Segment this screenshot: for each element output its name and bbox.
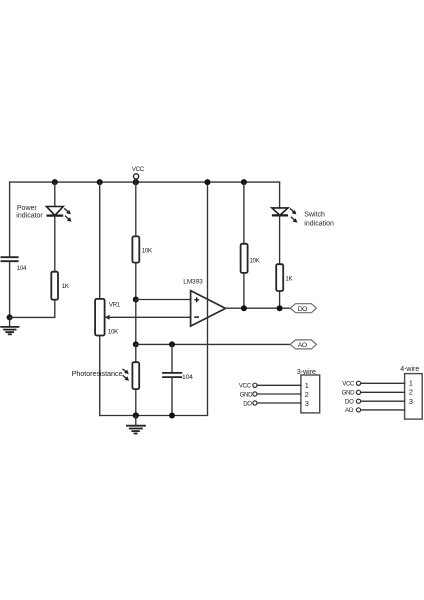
svg-text:1: 1 xyxy=(409,379,413,388)
wire LED D2 to R4 xyxy=(279,215,281,264)
pin 1 (J1) xyxy=(305,381,309,390)
wire rail to R2 xyxy=(135,182,137,236)
wire VR1 bottom to bottom rail xyxy=(99,336,101,416)
label 10K (R2) xyxy=(142,247,153,254)
svg-text:Power: Power xyxy=(17,205,38,212)
wire DO to J2 xyxy=(361,400,405,402)
wire top VCC rail xyxy=(10,181,280,183)
wire AO to J2 xyxy=(361,409,405,411)
label 3-wire xyxy=(297,369,316,376)
svg-text:1K: 1K xyxy=(285,275,293,282)
label 10K (R3) xyxy=(250,257,261,264)
svg-text:10K: 10K xyxy=(108,328,119,335)
wire R4 to DO line xyxy=(279,291,281,308)
node bottom rail / C2 xyxy=(169,413,175,419)
pin 1 (J2) xyxy=(409,379,413,388)
pin 2 (J2) xyxy=(409,388,413,397)
node bottom rail / ground xyxy=(133,412,139,418)
photoresistor arrows xyxy=(123,369,130,381)
label 1K (R4) xyxy=(285,275,293,282)
node AO tap / photoresistor top xyxy=(133,341,139,347)
node rail / op-amp supply xyxy=(205,179,211,185)
svg-text:4-wire: 4-wire xyxy=(400,366,419,373)
terminal VCC (J2) xyxy=(356,381,360,385)
svg-text:VR1: VR1 xyxy=(109,301,121,308)
potentiometer VR1 10K xyxy=(95,299,110,336)
node rail / power LED branch xyxy=(52,179,58,185)
wire LED D1 to R1 xyxy=(54,216,56,272)
label LM393 xyxy=(183,279,203,286)
wire R2 to + node xyxy=(135,263,137,300)
wire rail to LED D2 xyxy=(279,182,281,208)
node DO / R3 xyxy=(241,305,247,311)
label DO (J2) xyxy=(345,398,354,405)
resistor R1 1K xyxy=(51,272,58,300)
node rail / VR1 branch xyxy=(97,179,103,185)
pin 3 (J1) xyxy=(305,399,309,408)
svg-text:DO: DO xyxy=(345,398,354,405)
svg-text:1K: 1K xyxy=(62,283,70,290)
svg-text:GND: GND xyxy=(342,390,356,397)
photoresistor LDR xyxy=(132,362,139,389)
svg-text:indication: indication xyxy=(304,221,334,228)
svg-text:indicator: indicator xyxy=(16,213,43,220)
svg-text:GND: GND xyxy=(240,391,254,398)
wire divider node down to photoresistor xyxy=(135,300,137,345)
svg-text:DO: DO xyxy=(243,400,252,407)
svg-text:AO: AO xyxy=(345,407,354,414)
wire VCC circle stub xyxy=(135,179,137,182)
op-amp U1 LM393 xyxy=(191,291,226,327)
wire C2 bottom lead xyxy=(171,377,173,415)
wire bottom rail xyxy=(100,415,208,417)
wire VCC to J1 xyxy=(257,384,301,386)
label Photoresistance xyxy=(72,369,123,378)
pin 3 (J2) xyxy=(409,397,413,406)
svg-text:AO: AO xyxy=(298,342,307,349)
label AO (J2) xyxy=(345,407,354,414)
svg-text:10K: 10K xyxy=(142,247,153,254)
wire GND to J2 xyxy=(361,391,405,393)
svg-text:10K: 10K xyxy=(250,257,261,264)
node noninverting input tap xyxy=(133,297,139,303)
svg-text:104: 104 xyxy=(182,374,193,381)
connector J2 4-wire box xyxy=(405,374,423,420)
svg-text:VCC: VCC xyxy=(132,166,145,173)
wire VCC to J2 xyxy=(361,382,405,384)
pin 2 (J1) xyxy=(305,390,309,399)
svg-text:1: 1 xyxy=(305,381,309,390)
wire rail to LED D1 xyxy=(54,182,56,206)
label GND (J2) xyxy=(342,390,356,397)
resistor R4 1K xyxy=(276,264,283,291)
capacitor C2 104 xyxy=(163,373,181,377)
wire R3 to DO line xyxy=(243,273,245,308)
label 1K (R1) xyxy=(62,283,70,290)
label 104 (C1) xyxy=(17,265,27,272)
wire DO to J1 xyxy=(257,402,301,404)
ground (center) xyxy=(127,416,145,434)
terminal DO (J2) xyxy=(356,399,360,403)
resistor R3 10K pull-up xyxy=(241,244,248,273)
label 104 (C2) xyxy=(182,374,193,381)
LED D2 switch indication xyxy=(272,208,288,216)
node rail / R3 branch xyxy=(241,179,247,185)
connector J1 3-wire box xyxy=(301,375,320,413)
svg-text:VCC: VCC xyxy=(239,383,252,390)
terminal GND (J2) xyxy=(356,390,360,394)
LED D2 emission arrows xyxy=(290,208,297,222)
svg-text:VCC: VCC xyxy=(342,381,355,388)
label DO (J1) xyxy=(243,400,252,407)
terminal GND (J1) xyxy=(253,392,257,396)
ground (left) xyxy=(1,317,18,334)
LED D1 power indicator xyxy=(47,207,64,216)
label GND (J1) xyxy=(240,391,254,398)
terminal AO (J2) xyxy=(356,408,360,412)
wire photoresistor to bottom rail xyxy=(135,389,137,415)
svg-text:DO: DO xyxy=(298,306,307,313)
capacitor C1 104 xyxy=(1,257,17,261)
svg-text:Photoresistance: Photoresistance xyxy=(72,369,123,378)
label VR1 xyxy=(109,301,121,308)
svg-text:3: 3 xyxy=(305,399,309,408)
node left ground junction xyxy=(7,314,13,320)
flag DO xyxy=(290,304,316,313)
node AO / C2 xyxy=(169,341,175,347)
label 10K (VR1) xyxy=(108,328,119,335)
wire AO node to photoresistor xyxy=(135,344,137,362)
wire rail to R3 xyxy=(243,182,245,244)
wire GND to J1 xyxy=(257,393,301,395)
svg-text:Switch: Switch xyxy=(304,211,325,218)
svg-text:2: 2 xyxy=(305,390,309,399)
wire − input from VR1 wiper to op-amp xyxy=(108,316,191,318)
wire R1 to ground node xyxy=(10,300,55,318)
wire left branch lower (C1 to ground node) xyxy=(9,261,11,317)
LED D1 emission arrows xyxy=(64,208,71,221)
svg-text:2: 2 xyxy=(409,388,413,397)
node VCC on rail xyxy=(133,179,139,185)
terminal VCC (J1) xyxy=(253,383,257,387)
wire DO output line xyxy=(226,307,291,309)
svg-text:104: 104 xyxy=(17,265,27,272)
flag AO xyxy=(290,340,316,349)
label VCC (J2) xyxy=(342,381,355,388)
wire left branch upper (rail to C1) xyxy=(9,182,11,257)
wire AO line xyxy=(136,343,290,345)
label VCC (J1) xyxy=(239,383,252,390)
node DO / R4 xyxy=(277,305,283,311)
wire C2 top lead xyxy=(171,344,173,373)
svg-text:3: 3 xyxy=(409,397,413,406)
label Power indicator xyxy=(16,205,43,220)
wire op-amp V+/GND vertical xyxy=(207,182,209,415)
svg-text:LM393: LM393 xyxy=(183,279,203,286)
label 4-wire xyxy=(400,366,419,373)
wire rail to VR1 xyxy=(99,182,101,299)
terminal DO (J1) xyxy=(253,401,257,405)
wire + input to op-amp xyxy=(136,299,191,301)
resistor R2 10K (divider top) xyxy=(132,236,139,262)
terminal VCC circle xyxy=(134,174,139,179)
label VCC xyxy=(132,166,145,173)
label Switch indication xyxy=(304,211,334,227)
